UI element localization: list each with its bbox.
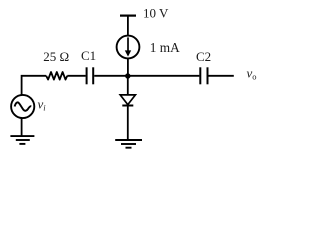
wire: resistor to capacitor C1 [67, 75, 85, 77]
svg-text:o: o [252, 72, 256, 82]
wire: node A down to diode D1 [127, 76, 129, 95]
power supply 10 V top bar [120, 15, 136, 17]
wire: C1 to capacitor C2 through node A [94, 75, 199, 77]
svg-text:1 mA: 1 mA [150, 40, 180, 55]
capacitor C1 [87, 67, 94, 84]
current source I1 arrow [127, 37, 129, 51]
wire: from source vi up and right to resistor [22, 76, 47, 95]
wire: diode D1 to ground [127, 106, 129, 140]
capacitor C2 [200, 67, 207, 84]
wire: C2 to output vo [209, 75, 234, 77]
current source I1 circle [117, 36, 140, 59]
source VI sine wave [15, 102, 32, 110]
svg-text:10 V: 10 V [143, 5, 169, 20]
svg-text:25 Ω: 25 Ω [43, 49, 69, 64]
svg-text:C1: C1 [81, 48, 96, 63]
ground (below diode) [115, 140, 142, 148]
wire: current source I1 to node A [127, 58, 129, 76]
wire: source VI to ground [21, 118, 23, 136]
node A junction dot [125, 73, 130, 78]
resistor R 25 ohm [46, 72, 67, 80]
svg-text:C2: C2 [196, 49, 211, 64]
diode D1 triangle [120, 95, 135, 105]
wire: 10V bar down to current source I1 [127, 16, 129, 36]
ground (below source VI) [10, 136, 34, 144]
source VI circle [11, 95, 34, 118]
diode D1 cathode bar [122, 105, 133, 107]
